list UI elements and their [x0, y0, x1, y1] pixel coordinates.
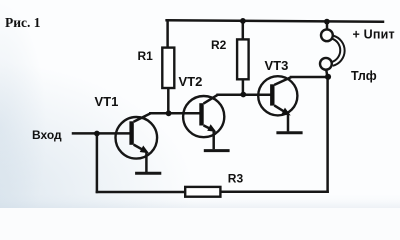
- svg-text:VT1: VT1: [95, 94, 119, 109]
- svg-text:VT2: VT2: [179, 74, 203, 89]
- svg-text:Вход: Вход: [32, 128, 62, 142]
- svg-text:Рис. 1: Рис. 1: [5, 15, 41, 30]
- svg-text:VT3: VT3: [265, 58, 289, 73]
- svg-text:R2: R2: [211, 38, 227, 52]
- svg-text:R1: R1: [138, 49, 154, 63]
- svg-text:+ Uпит: + Uпит: [353, 28, 395, 42]
- svg-text:R3: R3: [228, 171, 244, 185]
- svg-text:Тлф: Тлф: [351, 69, 377, 83]
